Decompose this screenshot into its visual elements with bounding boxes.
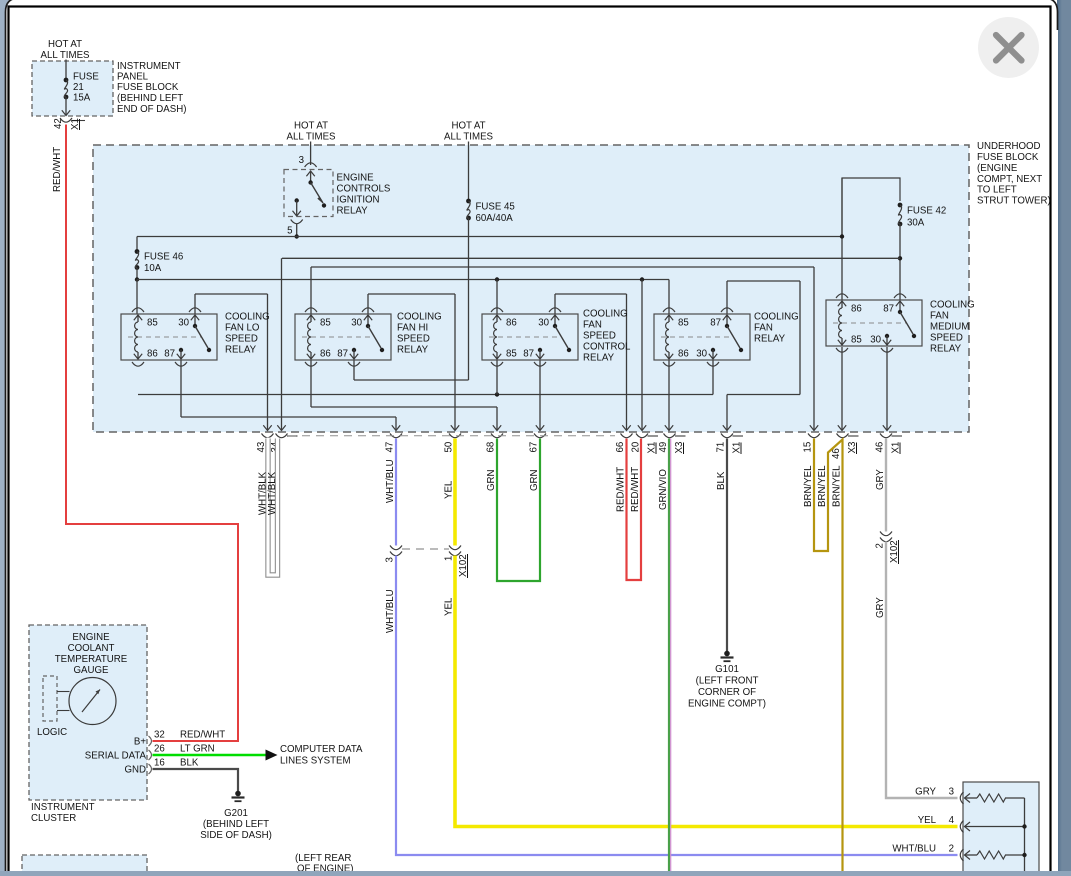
- svg-text:42: 42: [53, 118, 64, 129]
- connector exit pin 50 at x=455.0: [449, 434, 461, 438]
- svg-text:BLK: BLK: [716, 471, 727, 490]
- bus CF.87 loop bottom (y394.5): [727, 394, 800, 396]
- wire fuse42 top loop: [842, 178, 900, 237]
- svg-text:30: 30: [351, 318, 362, 329]
- connector exit pin 46 at x=886.0: [880, 434, 892, 438]
- connector X102 pin 2: [880, 532, 892, 536]
- svg-text:86: 86: [678, 349, 689, 360]
- svg-text:4: 4: [949, 815, 955, 826]
- svg-text:WHT/BLU: WHT/BLU: [892, 844, 936, 855]
- svg-text:85: 85: [147, 318, 158, 329]
- svg-text:20: 20: [631, 441, 642, 452]
- svg-text:85: 85: [678, 318, 689, 329]
- svg-text:YEL: YEL: [444, 480, 455, 499]
- svg-text:TO LEFT: TO LEFT: [977, 185, 1017, 196]
- wire BLK 71 to G101: [726, 439, 728, 652]
- bus fuse42 output (y258): [282, 257, 900, 259]
- wire SC.30 up: [554, 294, 556, 314]
- svg-text:FAN: FAN: [754, 323, 773, 334]
- connector exit pin 71 at x=727.0: [721, 434, 733, 438]
- svg-text:16: 16: [154, 758, 165, 769]
- svg-text:87: 87: [523, 349, 534, 360]
- cooling fan resistor block box: [963, 782, 1039, 876]
- bus LO.30 to exit43 (y294): [195, 293, 268, 295]
- svg-text:85: 85: [851, 335, 862, 346]
- svg-text:RED/WHT: RED/WHT: [180, 730, 225, 741]
- bus HI.85 / exit15 (y267): [311, 266, 814, 268]
- bus ignition feed (pin5): [137, 236, 842, 238]
- connector pin 2 (WHT/BLU) on resistor block: [960, 849, 963, 861]
- svg-text:15A: 15A: [73, 93, 91, 104]
- wire BLK ground to G201: [153, 769, 239, 791]
- svg-text:RELAY: RELAY: [337, 206, 369, 217]
- svg-text:10A: 10A: [144, 263, 162, 274]
- svg-text:(BEHIND LEFT: (BEHIND LEFT: [203, 819, 269, 830]
- svg-text:2: 2: [949, 844, 954, 855]
- wire resistor block internal vertical: [1024, 798, 1026, 871]
- svg-text:RED/WHT: RED/WHT: [52, 147, 63, 192]
- svg-text:87: 87: [883, 304, 894, 315]
- wire SC.87 / exit 67: [539, 360, 541, 430]
- connector exit pin 68 at x=497.0: [491, 434, 503, 438]
- svg-text:85: 85: [506, 349, 517, 360]
- svg-text:FUSE 45: FUSE 45: [476, 202, 515, 213]
- svg-text:GAUGE: GAUGE: [74, 665, 110, 676]
- pin SERIAL DATA 26: [149, 750, 152, 760]
- wire fuse21 to connector: [65, 97, 67, 115]
- svg-text:ALL TIMES: ALL TIMES: [41, 50, 91, 61]
- wire exit 43: [267, 294, 269, 430]
- close button: [978, 17, 1039, 78]
- svg-text:IGNITION: IGNITION: [337, 195, 380, 206]
- wire GRN/VIO 49: [668, 439, 670, 872]
- relay cooling fan relay K-CF: [654, 308, 799, 366]
- wire CF.30 to bus394: [712, 360, 714, 395]
- resistor element: [965, 797, 978, 799]
- connector pin 4 (YEL) on resistor block: [960, 821, 963, 833]
- svg-text:32: 32: [154, 730, 165, 741]
- wire GRY 46 upper: [885, 439, 887, 532]
- wire RED/WHT from fuse 21 to instrument cluster B+: [66, 125, 238, 742]
- connector pin 3 (GRY) on resistor block: [960, 792, 963, 804]
- svg-text:COOLING: COOLING: [754, 312, 799, 323]
- svg-text:(ENGINE: (ENGINE: [977, 163, 1018, 174]
- arrow to computer data lines system: [266, 750, 278, 761]
- wire WHT/BLU 47 lower, to connector pin 2: [396, 556, 958, 856]
- svg-text:GRN/VIO: GRN/VIO: [658, 469, 669, 510]
- svg-text:ENGINE: ENGINE: [337, 173, 375, 184]
- svg-text:WHT/BLU: WHT/BLU: [385, 459, 396, 503]
- svg-text:30: 30: [178, 318, 189, 329]
- svg-text:FAN: FAN: [930, 311, 949, 322]
- bus LO.87 to exit47 (y417): [181, 416, 396, 418]
- svg-text:WHT/BLK: WHT/BLK: [267, 471, 278, 515]
- svg-text:86: 86: [506, 318, 517, 329]
- connector pin 3: [305, 163, 317, 167]
- svg-text:26: 26: [154, 744, 165, 755]
- svg-text:ALL TIMES: ALL TIMES: [444, 132, 494, 143]
- svg-text:3: 3: [385, 557, 396, 562]
- svg-text:RELAY: RELAY: [930, 344, 962, 355]
- bus fuse46 output (y279.5): [137, 279, 669, 281]
- svg-text:SERIAL DATA: SERIAL DATA: [85, 751, 147, 762]
- wire HI.86 down: [310, 360, 312, 407]
- wire exit 66: [626, 294, 628, 430]
- svg-text:SPEED: SPEED: [583, 331, 616, 342]
- fuse 45 60A/40A: [466, 199, 471, 204]
- wire exit 15: [813, 267, 815, 430]
- wire exit 20: [641, 280, 643, 430]
- connector X1 pin 42: [60, 118, 72, 122]
- svg-text:G201: G201: [224, 808, 248, 819]
- svg-text:GRN: GRN: [486, 469, 497, 491]
- svg-text:HOT AT: HOT AT: [451, 121, 485, 132]
- component box (cut off at bottom): [22, 855, 147, 876]
- wire MED.30 / exit 46 X1: [886, 347, 888, 430]
- svg-text:21: 21: [73, 82, 84, 93]
- wire LO.30 up: [194, 294, 196, 314]
- bus LO.86/SC.85/CF.30 (y394.5): [138, 394, 713, 396]
- wire WHT/BLU 47 upper: [395, 439, 397, 546]
- wire CF.86 / exit 49: [668, 360, 670, 430]
- wire LO.87 down: [180, 360, 182, 417]
- svg-text:68: 68: [486, 442, 497, 453]
- relay cooling fan speed control relay K-SC: [482, 308, 631, 366]
- svg-text:BLK: BLK: [180, 758, 199, 769]
- svg-text:49: 49: [658, 442, 669, 453]
- svg-text:71: 71: [716, 442, 727, 453]
- svg-text:87: 87: [164, 349, 175, 360]
- svg-text:SPEED: SPEED: [225, 334, 258, 345]
- wire pair RED/WHT 66-20: [627, 439, 642, 581]
- svg-text:END OF DASH): END OF DASH): [117, 104, 186, 115]
- svg-text:RELAY: RELAY: [583, 353, 615, 364]
- wire fuse42 to bus258 and MED.87: [899, 224, 901, 300]
- instrument cluster box: [29, 625, 147, 800]
- svg-text:COOLING: COOLING: [225, 312, 270, 323]
- svg-text:GRY: GRY: [915, 787, 936, 798]
- resistor element: [965, 854, 978, 856]
- svg-text:RED/WHT: RED/WHT: [630, 467, 641, 512]
- connector exit pin 46 at x=842.5: [837, 434, 849, 438]
- wire YEL 50 upper: [453, 439, 457, 546]
- wire feed to ignition relay pin 3: [310, 142, 312, 166]
- svg-text:86: 86: [147, 349, 158, 360]
- relay cooling fan HI speed relay K-HI: [295, 308, 442, 366]
- wire bus267 to HI.85: [310, 267, 312, 314]
- svg-text:CORNER OF: CORNER OF: [698, 687, 756, 698]
- svg-text:BRN/YEL: BRN/YEL: [832, 465, 843, 507]
- relay ENGINE CONTROLS IGNITION RELAY: [284, 170, 333, 217]
- svg-text:30: 30: [696, 349, 707, 360]
- connector exit pin 67 at x=540.0: [534, 434, 546, 438]
- svg-text:BRN/YEL: BRN/YEL: [817, 465, 828, 507]
- svg-text:5: 5: [287, 226, 292, 237]
- wire SC.85 to bus394: [496, 360, 498, 395]
- svg-text:ENGINE: ENGINE: [72, 632, 110, 643]
- gauge needle: [82, 690, 100, 713]
- svg-text:RELAY: RELAY: [754, 334, 786, 345]
- wire exit 34: [281, 258, 283, 429]
- wire MED.85 / exit 46 X3: [841, 347, 843, 430]
- dialog outline left edge and top corners: [6, 0, 20, 871]
- ignition relay switch: [306, 171, 314, 176]
- svg-text:FAN LO: FAN LO: [225, 323, 260, 334]
- svg-text:STRUT TOWER): STRUT TOWER): [977, 196, 1051, 207]
- svg-text:ENGINE COMPT): ENGINE COMPT): [688, 699, 766, 710]
- wire HI.30 up: [367, 294, 369, 314]
- wire pin5 to bus: [296, 224, 298, 237]
- gauge ECT (engine coolant temperature gauge): [69, 678, 116, 725]
- svg-text:86: 86: [851, 304, 862, 315]
- svg-text:1: 1: [444, 556, 455, 561]
- svg-text:CLUSTER: CLUSTER: [31, 813, 76, 824]
- svg-text:ALL TIMES: ALL TIMES: [287, 132, 337, 143]
- relay cooling fan LO speed relay K-LO: [121, 308, 270, 366]
- wire bus279 to SC.86: [496, 280, 498, 315]
- svg-text:87: 87: [710, 318, 721, 329]
- svg-text:(LEFT REAR: (LEFT REAR: [295, 853, 351, 864]
- svg-text:BRN/YEL: BRN/YEL: [803, 465, 814, 507]
- svg-text:47: 47: [385, 442, 396, 453]
- wire CF.87 up: [726, 281, 728, 314]
- svg-text:YEL: YEL: [444, 597, 455, 616]
- svg-text:60A/40A: 60A/40A: [476, 213, 514, 224]
- ground G201: [235, 791, 241, 797]
- wire LT GRN serial data: [153, 754, 266, 757]
- wire feed into fuse 21: [65, 60, 67, 81]
- svg-text:CONTROL: CONTROL: [583, 342, 631, 353]
- wire CF87 loop right side: [799, 281, 801, 395]
- wire trio BRN/YEL 15-46: [814, 439, 843, 872]
- svg-text:FAN: FAN: [583, 320, 602, 331]
- wire exit 50: [454, 294, 456, 430]
- svg-text:MEDIUM: MEDIUM: [930, 322, 969, 333]
- svg-text:COOLING: COOLING: [397, 312, 442, 323]
- svg-text:85: 85: [320, 318, 331, 329]
- svg-text:LOGIC: LOGIC: [37, 727, 67, 738]
- svg-text:46: 46: [875, 442, 886, 453]
- pin GND 16: [149, 764, 152, 774]
- svg-text:PANEL: PANEL: [117, 72, 149, 83]
- svg-text:COOLANT: COOLANT: [68, 643, 115, 654]
- svg-text:86: 86: [320, 349, 331, 360]
- svg-text:UNDERHOOD: UNDERHOOD: [977, 141, 1041, 152]
- connector exit pin 34 at x=281.5: [276, 434, 288, 438]
- svg-text:RED/WHT: RED/WHT: [616, 467, 627, 512]
- svg-text:G101: G101: [715, 664, 739, 675]
- svg-text:FAN HI: FAN HI: [397, 323, 428, 334]
- connector exit pin 66 at x=626.5: [621, 434, 633, 438]
- svg-text:FUSE: FUSE: [73, 72, 99, 83]
- wire feed to fuse 45: [468, 142, 470, 202]
- svg-text:LT GRN: LT GRN: [180, 744, 215, 755]
- svg-text:30: 30: [870, 335, 881, 346]
- svg-text:30: 30: [538, 318, 549, 329]
- instrument panel fuse block box: [32, 61, 113, 116]
- svg-text:COMPT, NEXT: COMPT, NEXT: [977, 174, 1042, 185]
- svg-text:30A: 30A: [907, 218, 925, 229]
- connector exit pin 49 at x=669.5: [664, 434, 676, 438]
- svg-text:FUSE BLOCK: FUSE BLOCK: [977, 152, 1039, 163]
- wire GRY 46 lower, to connector pin 3: [886, 542, 958, 799]
- relay cooling fan medium speed relay K-MED: [826, 294, 975, 355]
- wire fuse46 to LO.85: [136, 280, 138, 315]
- connector exit pin 20 at x=642.0: [636, 434, 648, 438]
- connector X1 extent dashed line below border: [288, 435, 615, 437]
- svg-text:GRY: GRY: [875, 597, 886, 618]
- svg-text:3: 3: [949, 787, 954, 798]
- svg-text:COOLING: COOLING: [583, 309, 628, 320]
- connector exit pin 43 at x=267.5: [262, 434, 274, 438]
- svg-text:OF ENGINE): OF ENGINE): [297, 864, 354, 872]
- wire bus279 to CF.85: [668, 280, 670, 315]
- connector exit pin 15 at x=814.0: [808, 434, 820, 438]
- wire fuse42-loop / MED.86: [841, 178, 843, 300]
- svg-text:87: 87: [337, 349, 348, 360]
- connector pin 5: [291, 220, 303, 224]
- svg-text:CONTROLS: CONTROLS: [337, 184, 391, 195]
- svg-text:50: 50: [444, 441, 455, 452]
- svg-text:GND: GND: [124, 765, 146, 776]
- wire pair WHT/BLK 43-34: [268, 439, 278, 576]
- wire exit 47: [395, 417, 397, 430]
- svg-text:SIDE OF DASH): SIDE OF DASH): [200, 830, 272, 841]
- wire HI.87 down: [353, 360, 355, 380]
- svg-text:GRN: GRN: [529, 469, 540, 491]
- svg-text:HOT AT: HOT AT: [294, 121, 328, 132]
- svg-text:(BEHIND LEFT: (BEHIND LEFT: [117, 93, 183, 104]
- svg-text:FUSE BLOCK: FUSE BLOCK: [117, 82, 179, 93]
- svg-text:GRY: GRY: [875, 469, 886, 490]
- bus HI.30 to exit50 (y294): [368, 293, 455, 295]
- underhood fuse block box: [93, 145, 969, 432]
- svg-text:3: 3: [299, 155, 304, 166]
- svg-text:WHT/BLU: WHT/BLU: [385, 589, 396, 633]
- svg-text:COMPUTER DATA: COMPUTER DATA: [280, 744, 363, 755]
- wire YEL 50 lower, to connector pin 4: [455, 556, 958, 827]
- svg-text:FUSE 46: FUSE 46: [144, 252, 183, 263]
- svg-text:COOLING: COOLING: [930, 300, 975, 311]
- svg-text:(LEFT FRONT: (LEFT FRONT: [696, 676, 759, 687]
- fuse 21 15A: [64, 78, 69, 83]
- svg-text:B+: B+: [134, 737, 146, 748]
- svg-text:2: 2: [875, 543, 886, 548]
- connector X102 pins 3/1: [390, 546, 402, 550]
- fuse 42 30A: [898, 203, 903, 208]
- fuse 46 10A: [135, 249, 140, 254]
- svg-text:RELAY: RELAY: [397, 345, 429, 356]
- bus HI.87 to fuse45 (y380): [354, 379, 469, 381]
- pin B+ 32: [149, 736, 152, 746]
- svg-text:SPEED: SPEED: [930, 333, 963, 344]
- wire pair GRN 68-67: [497, 439, 540, 582]
- svg-text:INSTRUMENT: INSTRUMENT: [117, 61, 181, 72]
- wire exit 71: [726, 395, 728, 430]
- logic block: [43, 676, 57, 721]
- svg-text:RELAY: RELAY: [225, 345, 257, 356]
- ground G101: [724, 651, 730, 657]
- connector exit pin 47 at x=396.0: [390, 434, 402, 438]
- svg-text:TEMPERATURE: TEMPERATURE: [55, 654, 128, 665]
- svg-text:FUSE 42: FUSE 42: [907, 206, 946, 217]
- bus CF.87 loop top (y281): [727, 280, 800, 282]
- wire fuse45 down to HI relay 87 bus: [468, 218, 470, 380]
- svg-text:15: 15: [803, 442, 814, 453]
- svg-text:66: 66: [615, 442, 626, 453]
- svg-text:LINES SYSTEM: LINES SYSTEM: [280, 756, 351, 767]
- svg-text:INSTRUMENT: INSTRUMENT: [31, 802, 95, 813]
- bus HI.86 to exit68 (y407): [311, 406, 497, 408]
- svg-text:67: 67: [529, 442, 540, 453]
- svg-text:YEL: YEL: [918, 815, 937, 826]
- wire bus to fuse 46: [136, 237, 138, 252]
- bus SC.30 to exit66 (y294): [555, 293, 627, 295]
- svg-text:SPEED: SPEED: [397, 334, 430, 345]
- wire exit 68: [496, 407, 498, 430]
- svg-text:HOT AT: HOT AT: [48, 39, 82, 50]
- svg-text:46: 46: [831, 448, 842, 459]
